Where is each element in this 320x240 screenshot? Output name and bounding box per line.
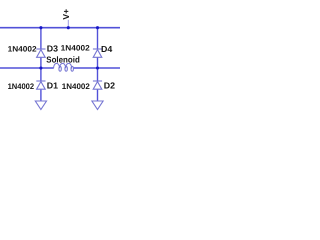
power V+ stub	[67, 20, 69, 28]
node junction middle rail / D3-D1	[39, 66, 42, 69]
svg-text:D1: D1	[47, 80, 58, 90]
ground (right, under D2)	[92, 101, 103, 110]
svg-text:1N4002: 1N4002	[61, 44, 91, 53]
wire middle rail to D1 cathode	[40, 68, 42, 81]
wire middle rail right (from solenoid)	[73, 67, 120, 69]
svg-text:1N4002: 1N4002	[62, 82, 91, 91]
wire D3 anode to middle rail	[40, 57, 42, 68]
node junction middle rail / D4-D2	[96, 66, 99, 69]
svg-text:1N4002: 1N4002	[8, 82, 35, 91]
wire D4 anode to middle rail	[97, 57, 99, 68]
wire D2 anode to ground	[97, 89, 99, 101]
wire top rail to D4 cathode	[97, 28, 99, 49]
svg-text:1N4002: 1N4002	[8, 44, 38, 53]
diode D4	[93, 49, 102, 57]
inductor solenoid coil	[54, 63, 74, 71]
wire top rail to D3 cathode	[40, 28, 42, 49]
node junction top rail / D4	[96, 26, 99, 29]
svg-text:Solenoid: Solenoid	[46, 55, 80, 65]
diode D1	[36, 81, 45, 89]
svg-text:D2: D2	[104, 80, 115, 90]
svg-text:V+: V+	[61, 9, 71, 20]
diode D3	[36, 49, 45, 57]
wire middle rail to D2 cathode	[97, 68, 99, 81]
ground (left, under D1)	[35, 101, 46, 110]
node junction top rail / V+ stub	[67, 26, 70, 29]
wire V+ top rail	[0, 27, 120, 29]
wire D1 anode to ground	[40, 89, 42, 101]
svg-text:D4: D4	[101, 44, 112, 54]
svg-text:D3: D3	[47, 44, 58, 54]
node junction top rail / D3	[39, 26, 42, 29]
diode D2	[93, 81, 102, 89]
wire middle rail left (to solenoid)	[0, 67, 54, 69]
